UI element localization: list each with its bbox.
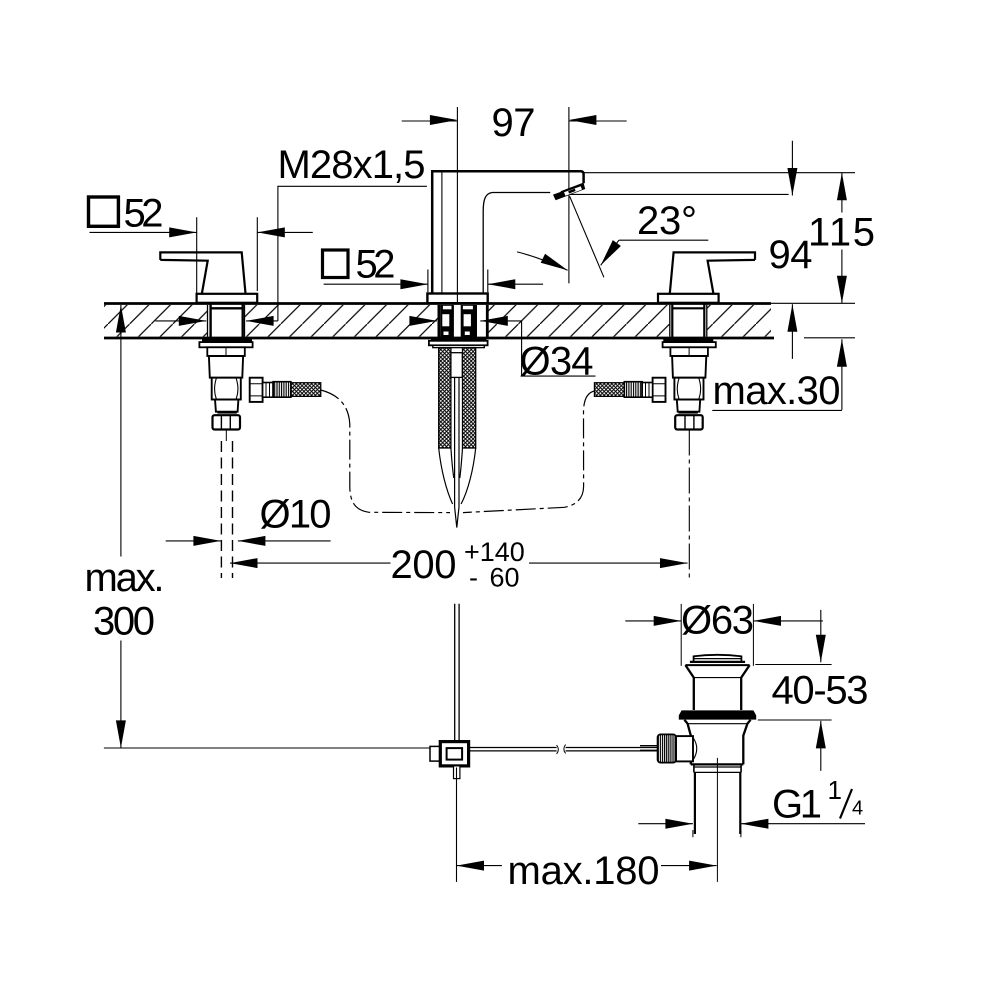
svg-text:300: 300 [93, 600, 155, 644]
svg-text:G1: G1 [772, 783, 822, 827]
svg-text:max.30: max.30 [713, 369, 841, 413]
svg-text:97: 97 [492, 101, 536, 145]
svg-text:-: - [469, 563, 478, 593]
svg-text:40-53: 40-53 [772, 669, 869, 713]
svg-text:M28x1,5: M28x1,5 [278, 143, 426, 187]
svg-text:52: 52 [356, 243, 396, 287]
svg-text:115: 115 [808, 211, 875, 255]
svg-text:1: 1 [828, 775, 842, 805]
svg-text:Ø63: Ø63 [681, 599, 754, 643]
svg-text:60: 60 [490, 563, 520, 593]
svg-text:max.180: max.180 [508, 849, 660, 893]
svg-text:94: 94 [769, 233, 813, 277]
svg-text:Ø10: Ø10 [260, 493, 332, 537]
svg-text:4: 4 [852, 798, 863, 820]
svg-text:Ø34: Ø34 [520, 340, 594, 384]
svg-text:52: 52 [124, 191, 164, 235]
svg-text:max.: max. [85, 556, 165, 600]
svg-text:200: 200 [391, 543, 457, 587]
svg-text:23°: 23° [637, 199, 697, 243]
